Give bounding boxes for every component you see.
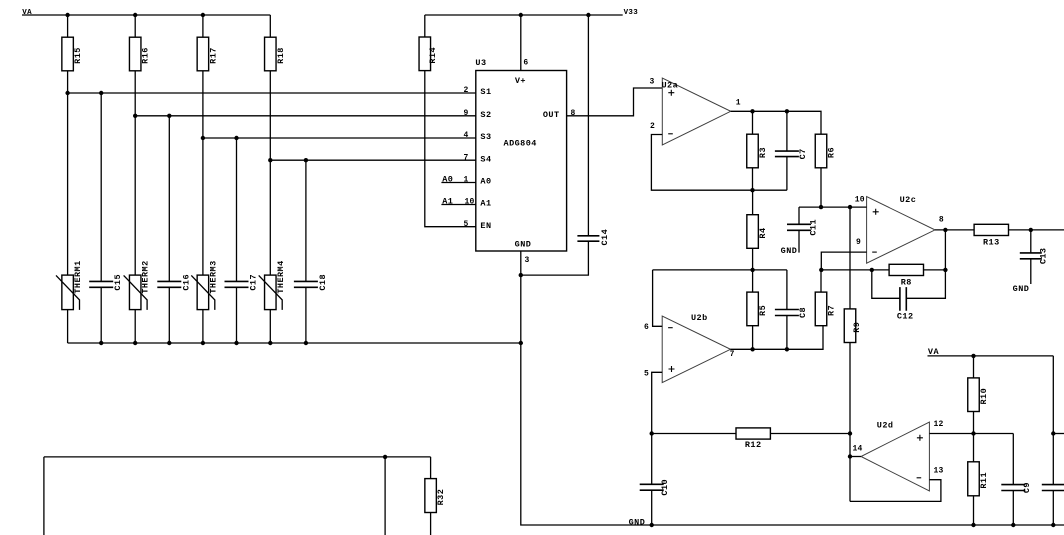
wire R9 top [849, 207, 851, 309]
svg-text:THERM1: THERM1 [73, 260, 83, 293]
wire GND pin 3 [520, 251, 522, 275]
wire R3 top [752, 111, 754, 134]
svg-text:C7: C7 [798, 148, 808, 159]
junction S2 at C16 column [167, 114, 171, 118]
junction pin5 C10 R12 [650, 431, 654, 435]
wire A0 stub [441, 182, 475, 184]
resistor R11 [968, 462, 989, 496]
wire U2d feedback to pin 13 [850, 480, 941, 502]
op-amp U2b [662, 313, 730, 382]
wire R17 to THERM3 [202, 71, 204, 275]
junction feedback output [943, 268, 947, 272]
capacitor C8 [775, 307, 808, 318]
wire C13 top [1030, 230, 1032, 253]
wire V33 rail [425, 14, 623, 16]
svg-text:U2d: U2d [877, 421, 894, 431]
junction S4 at R18 column [268, 158, 272, 162]
wire U2c output [935, 229, 974, 231]
wire C9 top [1012, 434, 1014, 485]
svg-text:1: 1 [736, 99, 741, 108]
capacitor C10 [640, 479, 671, 496]
junction S1 at C15 column [99, 91, 103, 95]
junction U2d output [848, 454, 852, 458]
svg-text:A1: A1 [480, 199, 491, 209]
resistor R5 [747, 292, 768, 326]
pin 6 V+ of U3 [523, 59, 528, 68]
wire mid feedback line [653, 269, 787, 271]
junction bus thermistor [201, 341, 205, 345]
svg-text:U2b: U2b [691, 313, 708, 323]
junction S4 at C18 column [304, 158, 308, 162]
wire U2c +input line [799, 206, 867, 208]
svg-text:10: 10 [464, 198, 474, 207]
wire VA rail [22, 14, 270, 16]
svg-text:R7: R7 [827, 305, 837, 316]
junction bus C17 [234, 341, 238, 345]
svg-text:THERM3: THERM3 [208, 260, 218, 293]
wire R14 to EN pin [425, 71, 476, 227]
svg-text:8: 8 [571, 109, 576, 118]
junction output C7 [785, 109, 789, 113]
resistor R14 [419, 37, 438, 71]
junction gnd node pin3 [519, 273, 523, 277]
wire R4 bottom [752, 248, 754, 270]
svg-text:C17: C17 [249, 274, 259, 291]
wire S3 line [203, 137, 476, 139]
capacitor C14 [577, 229, 610, 246]
resistor R13 [974, 224, 1008, 247]
op-amp U3 ADG804 multiplexer body [475, 58, 566, 251]
svg-text:2: 2 [650, 122, 655, 131]
svg-text:2: 2 [463, 86, 468, 95]
svg-text:R12: R12 [745, 440, 762, 450]
junction +input R9 [848, 205, 852, 209]
pin 4 S3 of U3 [463, 131, 491, 142]
svg-text:U3: U3 [475, 58, 486, 68]
svg-text:13: 13 [934, 466, 944, 475]
svg-text:C16: C16 [181, 274, 191, 291]
wire R16 top [134, 15, 136, 37]
wire R6 bottom [820, 168, 822, 207]
wire C12 left leg [872, 270, 900, 298]
svg-text:GND: GND [629, 517, 646, 527]
resistor R4 [747, 215, 768, 249]
wire C11 bottom [798, 230, 800, 252]
svg-text:C14: C14 [600, 229, 610, 246]
svg-text:C12: C12 [897, 311, 914, 321]
wire U2d pin 12 line [929, 433, 1013, 435]
wire thermistor ground bus [68, 342, 521, 344]
wire right cap top [1052, 356, 1054, 485]
wire C7 top [786, 111, 788, 151]
capacitor C15 [89, 274, 123, 291]
wire R7 top [820, 269, 822, 293]
svg-text:5: 5 [644, 369, 649, 378]
svg-text:5: 5 [463, 220, 468, 229]
wire OUT to U2a pin 3 [567, 88, 663, 116]
svg-text:6: 6 [644, 323, 649, 332]
svg-text:4: 4 [463, 131, 468, 140]
svg-text:R13: R13 [983, 238, 1000, 248]
pin 10 A1 of U3 [464, 198, 491, 209]
capacitor C9 [1001, 482, 1032, 493]
junction S1 at R15 column [65, 91, 69, 95]
wire U2c pin 9 to feedback [821, 252, 866, 270]
svg-text:GND: GND [1013, 284, 1030, 294]
svg-text:GND: GND [781, 246, 798, 256]
wire R5 top [752, 270, 754, 292]
svg-text:12: 12 [934, 420, 944, 429]
thermistor THERM1 [56, 260, 83, 310]
capacitor C12 [897, 287, 914, 321]
svg-text:R17: R17 [208, 47, 218, 64]
wire C13 bottom [1030, 259, 1032, 284]
junction V33 at C14 column [586, 13, 590, 17]
wire R3 bottom [752, 168, 754, 190]
svg-text:THERM4: THERM4 [276, 260, 286, 293]
wire A1 stub [441, 204, 475, 206]
junction bus to gnd vertical [519, 341, 523, 345]
resistor R16 [129, 37, 150, 71]
junction feedback C12 left [870, 268, 874, 272]
junction bus C16 [167, 341, 171, 345]
wire C16 bottom [168, 287, 170, 343]
resistor R6 [815, 134, 836, 168]
junction gnd bus C10 [650, 523, 654, 527]
svg-text:R4: R4 [758, 227, 768, 238]
wire THERM2 bottom [134, 310, 136, 343]
svg-text:R14: R14 [428, 47, 438, 64]
svg-text:9: 9 [856, 238, 861, 247]
wire R32 top [430, 457, 432, 479]
wire R9 bottom [849, 343, 851, 434]
wire U2a output to R6 [731, 111, 821, 134]
wire C9 bottom [1012, 491, 1014, 526]
junction output R3 [750, 109, 754, 113]
svg-text:8: 8 [939, 215, 944, 224]
capacitor C right edge [1042, 485, 1064, 491]
junction R4 R5 [750, 268, 754, 272]
wire bottom-left vertical [43, 457, 45, 535]
junction VA rail [201, 13, 205, 17]
svg-text:C9: C9 [1022, 482, 1032, 493]
junction output R5 [750, 347, 754, 351]
capacitor C11 [787, 219, 819, 236]
wire R18 to THERM4 [269, 71, 271, 275]
junction S2 at R16 column [133, 114, 137, 118]
svg-text:S4: S4 [480, 154, 491, 164]
svg-text:C10: C10 [660, 479, 670, 496]
junction feedback R3/R4 [750, 188, 754, 192]
svg-text:C15: C15 [113, 274, 123, 291]
junction right cap net [1051, 431, 1055, 435]
svg-text:C13: C13 [1038, 248, 1048, 265]
wire C14 top [587, 15, 589, 236]
wire C8 bottom [786, 316, 788, 350]
junction gnd bus R11 [971, 523, 975, 527]
wire C15 top [100, 93, 102, 282]
junction gnd bus right cap [1051, 523, 1055, 527]
resistor R8 [889, 264, 923, 287]
resistor R17 [197, 37, 218, 71]
wire THERM4 bottom [269, 310, 271, 343]
resistor R12 [736, 428, 770, 450]
svg-text:THERM2: THERM2 [141, 260, 151, 293]
svg-text:7: 7 [463, 153, 468, 162]
junction output C8 [785, 347, 789, 351]
resistor R15 [62, 37, 83, 71]
resistor R32 [425, 479, 446, 513]
svg-text:OUT: OUT [543, 110, 560, 120]
svg-text:U2a: U2a [662, 81, 679, 91]
wire U2d output [850, 456, 861, 458]
svg-text:C8: C8 [798, 307, 808, 318]
wire THERM3 bottom [202, 310, 204, 343]
wire C8 top [786, 270, 788, 310]
junction R9 R12 U2d [848, 431, 852, 435]
wire R18 top [269, 15, 271, 37]
junction bus C15 [99, 341, 103, 345]
pin 8 OUT of U3 [543, 109, 576, 120]
svg-text:14: 14 [853, 445, 863, 454]
wire U2d output column [849, 434, 851, 502]
pin 1 A0 of U3 [463, 176, 491, 187]
junction VA rail [65, 13, 69, 17]
wire R15 to THERM1 [67, 71, 69, 275]
wire R5 bottom [752, 326, 754, 350]
wire C17 top [236, 138, 238, 282]
pin 2 S1 of U3 [463, 86, 491, 97]
wire V+ pin 6 [520, 15, 522, 71]
wire R4 top [752, 190, 754, 215]
thermistor THERM3 [191, 260, 218, 310]
wire S2 line [135, 115, 476, 117]
wire R13 to edge [1009, 229, 1064, 231]
junction pin12 R10 R11 [971, 431, 975, 435]
junction bus C18 [304, 341, 308, 345]
wire C17 bottom [236, 287, 238, 343]
junction S3 at C17 column [234, 136, 238, 140]
wire C18 bottom [305, 287, 307, 343]
wire R10 top [973, 356, 975, 378]
wire C16 top [168, 116, 170, 282]
op-amp U2a [662, 78, 731, 145]
pin 9 S2 of U3 [463, 109, 491, 120]
wire THERM1 bottom [67, 310, 69, 343]
svg-text:S1: S1 [480, 87, 491, 97]
wire U2b output to R7 [731, 326, 824, 350]
junction feedback R7 [819, 268, 823, 272]
wire R11 bottom [973, 496, 975, 525]
op-amp U2c [867, 195, 935, 263]
junction +input R6 [819, 205, 823, 209]
capacitor C16 [157, 274, 191, 291]
svg-text:7: 7 [730, 350, 735, 359]
wire S4 line [270, 159, 476, 161]
wire R14 top [424, 15, 426, 37]
junction R13 C13 [1029, 228, 1033, 232]
svg-text:R8: R8 [901, 278, 912, 288]
resistor R9 [844, 309, 862, 343]
wire R10 bottom [973, 412, 975, 434]
wire C15 bottom [100, 287, 102, 343]
wire VA right rail [928, 355, 1054, 357]
resistor R3 [747, 134, 768, 168]
svg-text:R32: R32 [436, 489, 446, 506]
junction bottom-left [383, 455, 387, 459]
svg-text:R18: R18 [276, 47, 286, 64]
svg-text:S2: S2 [480, 110, 491, 120]
svg-text:R3: R3 [758, 147, 768, 158]
capacitor C13 [1020, 248, 1049, 265]
svg-text:V+: V+ [515, 76, 526, 86]
svg-text:EN: EN [480, 221, 491, 231]
junction S3 at R17 column [201, 136, 205, 140]
svg-text:U2c: U2c [900, 195, 917, 205]
svg-text:C18: C18 [318, 274, 328, 291]
resistor R18 [265, 37, 286, 71]
svg-text:R16: R16 [141, 47, 151, 64]
svg-text:C11: C11 [809, 219, 819, 236]
wire net stub to edge [1053, 433, 1064, 435]
svg-text:9: 9 [463, 109, 468, 118]
svg-text:R15: R15 [73, 47, 83, 64]
svg-text:3: 3 [649, 78, 654, 87]
capacitor C17 [225, 274, 259, 291]
wire R16 to THERM2 [134, 71, 136, 275]
capacitor C18 [294, 274, 328, 291]
pin 7 S4 of U3 [463, 153, 491, 164]
resistor R7 [815, 292, 836, 326]
svg-text:R5: R5 [758, 305, 768, 316]
svg-text:1: 1 [463, 176, 468, 185]
wire U2c feedback line [821, 269, 945, 271]
junction bus thermistor [268, 341, 272, 345]
wire C12 right leg [906, 270, 945, 298]
wire R12 line [652, 433, 850, 435]
wire right cap bottom [1052, 491, 1054, 526]
capacitor C7 [775, 148, 808, 159]
svg-text:6: 6 [523, 59, 528, 68]
wire R32 bottom [430, 513, 432, 535]
svg-text:ADG804: ADG804 [504, 138, 537, 148]
junction VA rail [133, 13, 137, 17]
wire bottom-left middle vertical [384, 457, 386, 535]
junction bus thermistor [133, 341, 137, 345]
resistor R10 [968, 378, 989, 412]
wire C10 top [651, 434, 653, 485]
svg-text:V33: V33 [624, 9, 639, 17]
thermistor THERM2 [124, 260, 151, 310]
wire R11 top [973, 434, 975, 462]
wire R15 top [67, 15, 69, 37]
wire U2b pin 6 up [653, 270, 663, 326]
wire U2b pin 5 down [652, 372, 663, 433]
svg-text:R6: R6 [827, 147, 837, 158]
wire bottom-left horizontal [44, 456, 431, 458]
wire gnd vertical and bottom gnd bus [521, 275, 1064, 525]
svg-text:10: 10 [855, 196, 865, 205]
wire C11 top [798, 207, 800, 224]
thermistor THERM4 [259, 260, 286, 310]
wire C14 bottom to gnd node [521, 241, 589, 275]
svg-text:3: 3 [525, 256, 530, 265]
svg-text:R11: R11 [979, 472, 989, 489]
svg-text:GND: GND [515, 240, 532, 250]
wire C18 top [305, 160, 307, 282]
pin 3 GND of U3 [525, 256, 530, 265]
svg-text:A0: A0 [480, 177, 491, 187]
wire S1 line [68, 92, 476, 94]
wire output to feedback [944, 230, 946, 270]
svg-text:S3: S3 [480, 132, 491, 142]
pin 5 EN of U3 [463, 220, 491, 231]
svg-text:R10: R10 [979, 388, 989, 405]
wire C10 bottom [651, 490, 653, 525]
wire U2a feedback pin 2 [651, 135, 787, 191]
junction VA R10 [971, 354, 975, 358]
op-amp U2d [861, 421, 929, 491]
junction output feedback [943, 228, 947, 232]
wire R17 top [202, 15, 204, 37]
wire C7 bottom [786, 157, 788, 191]
svg-text:R9: R9 [852, 322, 862, 333]
junction V33 at V+ column [519, 13, 523, 17]
junction gnd bus C9 [1011, 523, 1015, 527]
